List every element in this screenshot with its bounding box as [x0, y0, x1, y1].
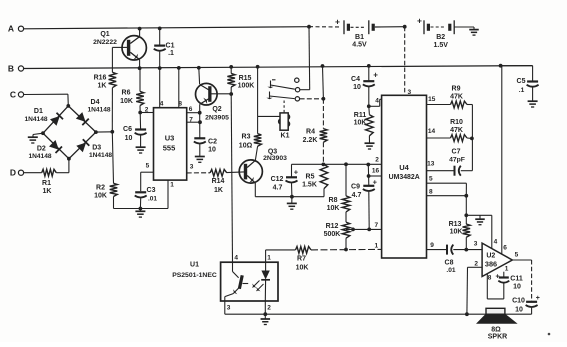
svg-text:6: 6 — [189, 106, 193, 113]
svg-text:C11: C11 — [510, 276, 523, 283]
svg-text:5: 5 — [429, 176, 433, 183]
svg-text:4: 4 — [494, 239, 498, 246]
diode D2 1N4148 — [28, 140, 62, 160]
svg-text:4: 4 — [160, 100, 164, 107]
svg-text:1: 1 — [267, 255, 271, 262]
node C12 ground — [290, 195, 294, 199]
wire: R6 to U3 pin2 node — [139, 106, 141, 113]
svg-text:8Ω: 8Ω — [491, 327, 501, 334]
svg-text:10: 10 — [125, 135, 133, 142]
ground below C2 — [195, 156, 205, 158]
svg-text:+: + — [373, 71, 378, 80]
svg-text:Q1: Q1 — [100, 31, 109, 38]
svg-text:R13: R13 — [449, 221, 462, 228]
ground at battery negative — [469, 27, 479, 35]
node: A rail junction to Q1 collector — [138, 27, 142, 31]
op IC U3 555 timer — [145, 100, 194, 188]
capacitor C1 .1 — [154, 28, 175, 68]
node U3 pin 2 — [138, 111, 142, 115]
wire: terminal D to R1 — [24, 172, 42, 174]
node C4/R11/pin4 — [367, 104, 371, 108]
node R13 / opamp pin3 — [464, 248, 468, 252]
svg-text:1N4148: 1N4148 — [87, 107, 110, 114]
svg-text:+: + — [495, 273, 499, 280]
wire: NC contact to R4 branch — [300, 98, 324, 100]
wire: Q2 collector to pin6 node — [199, 104, 201, 112]
relay contact circle NC — [295, 97, 299, 101]
node NC / R4 branch — [322, 97, 326, 101]
svg-text:1K: 1K — [214, 187, 223, 194]
svg-text:2: 2 — [267, 305, 271, 312]
svg-text:13: 13 — [427, 161, 435, 168]
resistor R3 10Ω — [239, 116, 262, 149]
node pin6 — [198, 111, 202, 115]
resistor R6 10K — [120, 68, 144, 105]
resistor R1 1K — [42, 169, 57, 195]
svg-text:4: 4 — [234, 255, 238, 262]
wire: opamp output — [512, 260, 531, 301]
wire: B rail to Q2 emitter — [198, 68, 201, 84]
svg-text:1K: 1K — [43, 188, 52, 195]
node rail / C5 / pin6 — [499, 64, 503, 68]
wire: U3 pin5 to C3 — [141, 172, 154, 191]
node C9 / pin16 — [367, 174, 371, 178]
wire: common contact up to A rail — [300, 27, 310, 90]
svg-text:C3: C3 — [147, 187, 156, 194]
wire: U3 pin6 stub — [187, 112, 200, 114]
svg-text:2.2K: 2.2K — [303, 137, 318, 144]
terminal B — [8, 64, 24, 74]
svg-text:10K: 10K — [120, 98, 133, 105]
ground at bridge left — [28, 133, 43, 143]
svg-text:4.7: 4.7 — [352, 192, 362, 199]
capacitor C7 47pF — [427, 148, 473, 175]
wire: U3 pin4 to B rail — [159, 68, 161, 108]
svg-text:2N3903: 2N3903 — [263, 155, 287, 162]
svg-text:D1: D1 — [34, 108, 43, 115]
wire: jog to U4 pin4 — [369, 99, 382, 106]
resistor R12 500K — [324, 212, 350, 250]
svg-text:R2: R2 — [96, 185, 105, 192]
svg-text:D: D — [10, 168, 16, 178]
svg-text:U2: U2 — [486, 252, 495, 259]
svg-text:1: 1 — [374, 243, 378, 250]
svg-text:C10: C10 — [512, 298, 525, 305]
svg-text:R15: R15 — [239, 75, 252, 82]
wire: U4 pin16 stub — [369, 175, 382, 177]
wire: Q1 emitter to B rail — [139, 60, 141, 69]
capacitor C11 10 — [495, 272, 522, 299]
svg-text:R10: R10 — [450, 119, 463, 126]
node R15 top on B rail — [229, 65, 233, 69]
svg-text:R8: R8 — [329, 197, 338, 204]
svg-text:6: 6 — [503, 244, 507, 251]
wire: R7 line from U1 pin1 to U4 pin1 — [266, 250, 296, 262]
svg-text:100K: 100K — [238, 83, 255, 90]
svg-text:R5: R5 — [306, 174, 315, 181]
svg-text:500K: 500K — [324, 231, 341, 238]
svg-text:R12: R12 — [326, 223, 339, 230]
wire: R9/R10/C7 common vertical — [471, 105, 473, 171]
svg-text:10K: 10K — [296, 265, 309, 272]
wire: K1 coil left lead — [258, 115, 280, 117]
resistor R13 10K — [449, 221, 471, 250]
svg-text:.01: .01 — [148, 196, 157, 203]
node opamp pin2 on bottom rail — [465, 312, 469, 316]
wire: U3 pin7 stub — [187, 121, 200, 123]
node pin7 line a — [351, 228, 355, 232]
svg-text:2N2222: 2N2222 — [93, 39, 117, 46]
node R8 top — [344, 162, 348, 166]
svg-text:Q2: Q2 — [212, 106, 221, 113]
wire: Q3 base from R14 — [227, 171, 244, 174]
svg-text:386: 386 — [485, 260, 497, 269]
svg-text:R3: R3 — [242, 134, 251, 141]
node rail to R2b/relay branch — [256, 65, 260, 69]
capacitor C5 .1 — [501, 66, 539, 101]
node rail/C4 — [367, 64, 371, 68]
resistor R4 2.2K — [303, 66, 328, 164]
svg-text:+: + — [417, 16, 422, 26]
node C1 bottom on B rail — [158, 66, 162, 70]
resistor R7 10K — [296, 247, 312, 272]
svg-text:R4: R4 — [306, 129, 315, 136]
svg-text:3: 3 — [190, 164, 194, 171]
svg-text:4.7: 4.7 — [273, 185, 283, 192]
svg-text:10: 10 — [353, 84, 361, 91]
U1 LED — [252, 262, 270, 301]
svg-text:.1: .1 — [168, 50, 174, 57]
svg-text:10: 10 — [208, 147, 216, 154]
resistor R8 10K — [327, 164, 350, 212]
wire: U1 pin3 to bottom rail — [224, 301, 226, 314]
svg-text:10: 10 — [515, 307, 523, 314]
svg-text:SPKR: SPKR — [488, 334, 507, 341]
wire: terminal A horizontal rail — [24, 27, 342, 29]
svg-text:8: 8 — [488, 275, 492, 282]
wire: pin2 node to U3 — [140, 112, 153, 114]
svg-text:1N4148: 1N4148 — [89, 152, 112, 159]
node R16 bottom — [110, 130, 114, 134]
wire: bridge right vertex to R16/R2 node — [96, 131, 113, 133]
node: A rail junction to relay common / battery — [307, 25, 311, 29]
svg-text:10K: 10K — [94, 193, 107, 200]
IC U4 UM3482A melody generator — [372, 89, 436, 258]
capacitor C8 .01 — [445, 245, 483, 274]
wire: opamp pin6 supply from rail — [501, 66, 503, 255]
svg-text:R9: R9 — [452, 86, 461, 93]
wire: R16 to bridge node — [111, 88, 113, 132]
resistor R14 1K — [187, 169, 227, 194]
svg-text:47K: 47K — [450, 127, 463, 134]
terminal A — [8, 24, 24, 34]
battery B1 4.5V — [335, 17, 405, 49]
svg-text:2: 2 — [474, 261, 478, 268]
diode bridge frame D1-D4 — [43, 106, 96, 159]
capacitor C6 10 — [123, 113, 147, 147]
capacitor C12 4.7 — [271, 164, 299, 196]
node bridge bottom — [67, 157, 71, 161]
bottom rail wire — [225, 313, 532, 315]
Q2 — [196, 83, 232, 121]
svg-text:2: 2 — [375, 157, 379, 164]
wire: U4 pin5 stub — [427, 183, 467, 196]
svg-text:C5: C5 — [517, 78, 526, 85]
svg-text:4: 4 — [375, 98, 379, 105]
wire: ground/pin4 branch — [466, 214, 492, 216]
relay K1 coil — [279, 113, 290, 139]
svg-text:2: 2 — [145, 107, 149, 114]
svg-text:C4: C4 — [351, 76, 360, 83]
wire: R1 to bridge bottom — [56, 159, 69, 173]
svg-text:10K: 10K — [450, 229, 463, 236]
node pin7 line C9 — [367, 228, 371, 232]
resistor R5 1.5K — [302, 164, 328, 196]
stray scan speck — [548, 333, 551, 336]
svg-text:U1: U1 — [190, 262, 199, 269]
svg-text:9: 9 — [430, 242, 434, 249]
wire: R5 bottom to C12 ground node — [292, 196, 324, 198]
svg-text:C8: C8 — [445, 260, 454, 267]
svg-text:UM3482A: UM3482A — [389, 174, 420, 181]
svg-text:14: 14 — [428, 128, 436, 135]
wire: down to R13 — [465, 196, 467, 224]
diode D3 1N4148 — [76, 139, 112, 159]
op-amp U2 386 — [474, 239, 519, 282]
wire: battery junction down to U4 pin3 — [404, 27, 406, 96]
wire: long vertical R15 node down to U1 pin4 — [231, 94, 232, 262]
svg-text:1: 1 — [170, 182, 174, 189]
capacitor C9 4.7 — [351, 165, 378, 230]
svg-text:3: 3 — [474, 240, 478, 247]
relay contact circle NO — [295, 78, 299, 82]
node bridge right — [94, 130, 98, 134]
relay contact circle common — [295, 88, 299, 92]
svg-text:C: C — [10, 90, 16, 100]
svg-text:5: 5 — [515, 252, 519, 259]
Q3 — [239, 148, 287, 183]
wire: U4 pin7 line — [346, 228, 382, 230]
svg-text:10K: 10K — [327, 205, 340, 212]
svg-text:+: + — [373, 178, 378, 187]
terminal C — [10, 90, 24, 100]
svg-text:4.5V: 4.5V — [352, 42, 367, 49]
resistor R16 1K — [94, 72, 117, 89]
capacitor C2 10 — [194, 138, 217, 156]
svg-text:C6: C6 — [123, 126, 132, 133]
wire: U3 pin1 ground run — [114, 180, 169, 208]
svg-text:C2: C2 — [208, 139, 217, 146]
resistor R10 47K — [427, 119, 472, 141]
wire: opamp pin8 drop — [486, 274, 488, 299]
wire: rail down to K1 lead — [257, 67, 259, 117]
svg-text:R11: R11 — [354, 112, 367, 119]
svg-text:1N4148: 1N4148 — [28, 153, 51, 160]
svg-text:16: 16 — [372, 167, 380, 174]
svg-text:15: 15 — [428, 96, 436, 103]
node battery junction — [403, 25, 407, 29]
node R4/R5 on pin2 net — [322, 163, 326, 167]
node bridge left — [41, 131, 45, 135]
node pin5/pin8 — [464, 194, 468, 198]
svg-text:R16: R16 — [94, 75, 107, 82]
svg-text:B: B — [8, 64, 14, 74]
svg-text:PS2501-1NEC: PS2501-1NEC — [172, 272, 217, 279]
capacitor C3 .01 — [135, 187, 158, 209]
wire: U4 pin9 to C8 — [427, 249, 448, 251]
svg-text:47pF: 47pF — [449, 156, 465, 163]
resistor R2 10K — [94, 132, 117, 209]
Q1 — [93, 31, 146, 60]
wire: U4 pin8 stub — [427, 195, 467, 197]
node Q2 base / R15 — [229, 92, 233, 96]
svg-text:7: 7 — [374, 222, 378, 229]
wire: terminal C to bridge top — [24, 94, 69, 106]
diode D1 1N4148 — [24, 108, 63, 126]
wire: opamp pin4 drop — [491, 215, 493, 248]
wire: R7 to U4 pin1 — [311, 248, 382, 251]
svg-text:1: 1 — [505, 266, 509, 273]
svg-text:8: 8 — [429, 188, 433, 195]
resistor R9 47K — [427, 86, 473, 108]
svg-text:47K: 47K — [450, 94, 463, 101]
svg-text:C7: C7 — [452, 148, 461, 155]
svg-text:R14: R14 — [212, 178, 225, 185]
svg-text:3: 3 — [227, 305, 231, 312]
ground below C6 — [136, 146, 146, 148]
node bridge top — [66, 104, 70, 108]
ground below R11 — [365, 136, 375, 149]
svg-text:B2: B2 — [436, 34, 445, 41]
svg-text:3: 3 — [407, 89, 411, 96]
svg-text:555: 555 — [163, 144, 176, 153]
wire: U3 pin8 to B rail — [178, 68, 180, 108]
ground opamp bias — [475, 215, 485, 224]
wire: terminal B horizontal supply rail — [24, 66, 533, 69]
svg-text:C9: C9 — [351, 184, 360, 191]
svg-text:1K: 1K — [98, 83, 107, 90]
wire: Q3 emitter down — [255, 183, 292, 197]
svg-text:+: + — [294, 167, 299, 176]
ground at bottom rail — [261, 314, 271, 324]
svg-text:.01: .01 — [446, 267, 455, 274]
U1 phototransistor — [225, 262, 248, 301]
svg-text:D2: D2 — [37, 145, 46, 152]
svg-text:C12: C12 — [271, 176, 284, 183]
svg-text:C1: C1 — [166, 43, 175, 50]
svg-text:10K: 10K — [354, 120, 367, 127]
node C9 top — [366, 163, 370, 167]
opto-isolator U1 PS2501-1NEC — [172, 255, 278, 312]
wire: pin2 net horizontal — [292, 163, 382, 165]
node U1 ground — [263, 312, 267, 316]
node R12 bottom on pin1 line — [344, 248, 348, 252]
svg-text:D3: D3 — [92, 144, 101, 151]
wire: bypass loop bottom — [487, 298, 504, 300]
wire: R15 bottom — [230, 87, 232, 94]
svg-text:2N3905: 2N3905 — [205, 115, 229, 122]
relay contact lever lower — [266, 92, 294, 100]
capacitor C10 10 — [512, 295, 540, 314]
svg-text:U4: U4 — [399, 163, 409, 172]
svg-text:U3: U3 — [165, 134, 175, 143]
wire: A rail down to Q1 collector — [139, 29, 141, 37]
relay contact lever upper — [267, 80, 294, 89]
node Q1 emitter on B rail — [138, 66, 142, 70]
wire: R3 to Q3 collector — [255, 146, 257, 160]
svg-text:5: 5 — [146, 162, 150, 169]
node ground branch — [464, 213, 468, 217]
svg-text:10: 10 — [513, 284, 521, 291]
node pin8 rail — [177, 66, 181, 70]
resistor R15 100K — [227, 67, 254, 90]
svg-text:R6: R6 — [122, 90, 131, 97]
svg-text:.1: .1 — [519, 87, 525, 94]
svg-text:R7: R7 — [297, 256, 306, 263]
ground at pin1 node — [135, 209, 145, 218]
node rail/R4 — [321, 64, 325, 68]
node: A rail junction to C1 — [158, 27, 162, 31]
svg-text:1.5K: 1.5K — [302, 182, 317, 189]
wire: Q1 base down through B to R16 — [111, 47, 113, 72]
svg-text:K1: K1 — [281, 132, 290, 139]
svg-text:+: + — [335, 17, 340, 27]
svg-text:1N4148: 1N4148 — [24, 116, 47, 123]
node pin7 — [198, 120, 202, 124]
svg-text:10Ω: 10Ω — [239, 143, 253, 150]
speaker 8 ohm SPKR — [477, 308, 516, 340]
svg-text:+: + — [536, 295, 540, 302]
svg-text:1.5V: 1.5V — [433, 42, 448, 49]
terminal D — [10, 168, 24, 178]
wire: pin6-pin7 tie down to C2 — [199, 113, 201, 139]
node C3 / ground — [139, 207, 143, 211]
svg-text:A: A — [8, 24, 14, 34]
capacitor C4 10 — [351, 66, 378, 106]
wire: opamp pin2 down to bottom rail — [467, 267, 482, 314]
resistor R11 10K — [354, 106, 374, 136]
ground below C12 — [287, 197, 297, 210]
svg-text:B1: B1 — [355, 34, 364, 41]
node Q2 emitter rail — [197, 66, 201, 70]
ground below C5 — [528, 100, 538, 102]
battery B2 1.5V — [417, 16, 474, 49]
svg-text:D4: D4 — [91, 99, 100, 106]
dashed relay actuator link — [283, 101, 285, 113]
node R10 on common vertical — [470, 137, 474, 141]
svg-text:R1: R1 — [42, 180, 51, 187]
wire: U1 pin2 to ground node — [264, 301, 266, 314]
diode D4 1N4148 — [76, 99, 111, 125]
